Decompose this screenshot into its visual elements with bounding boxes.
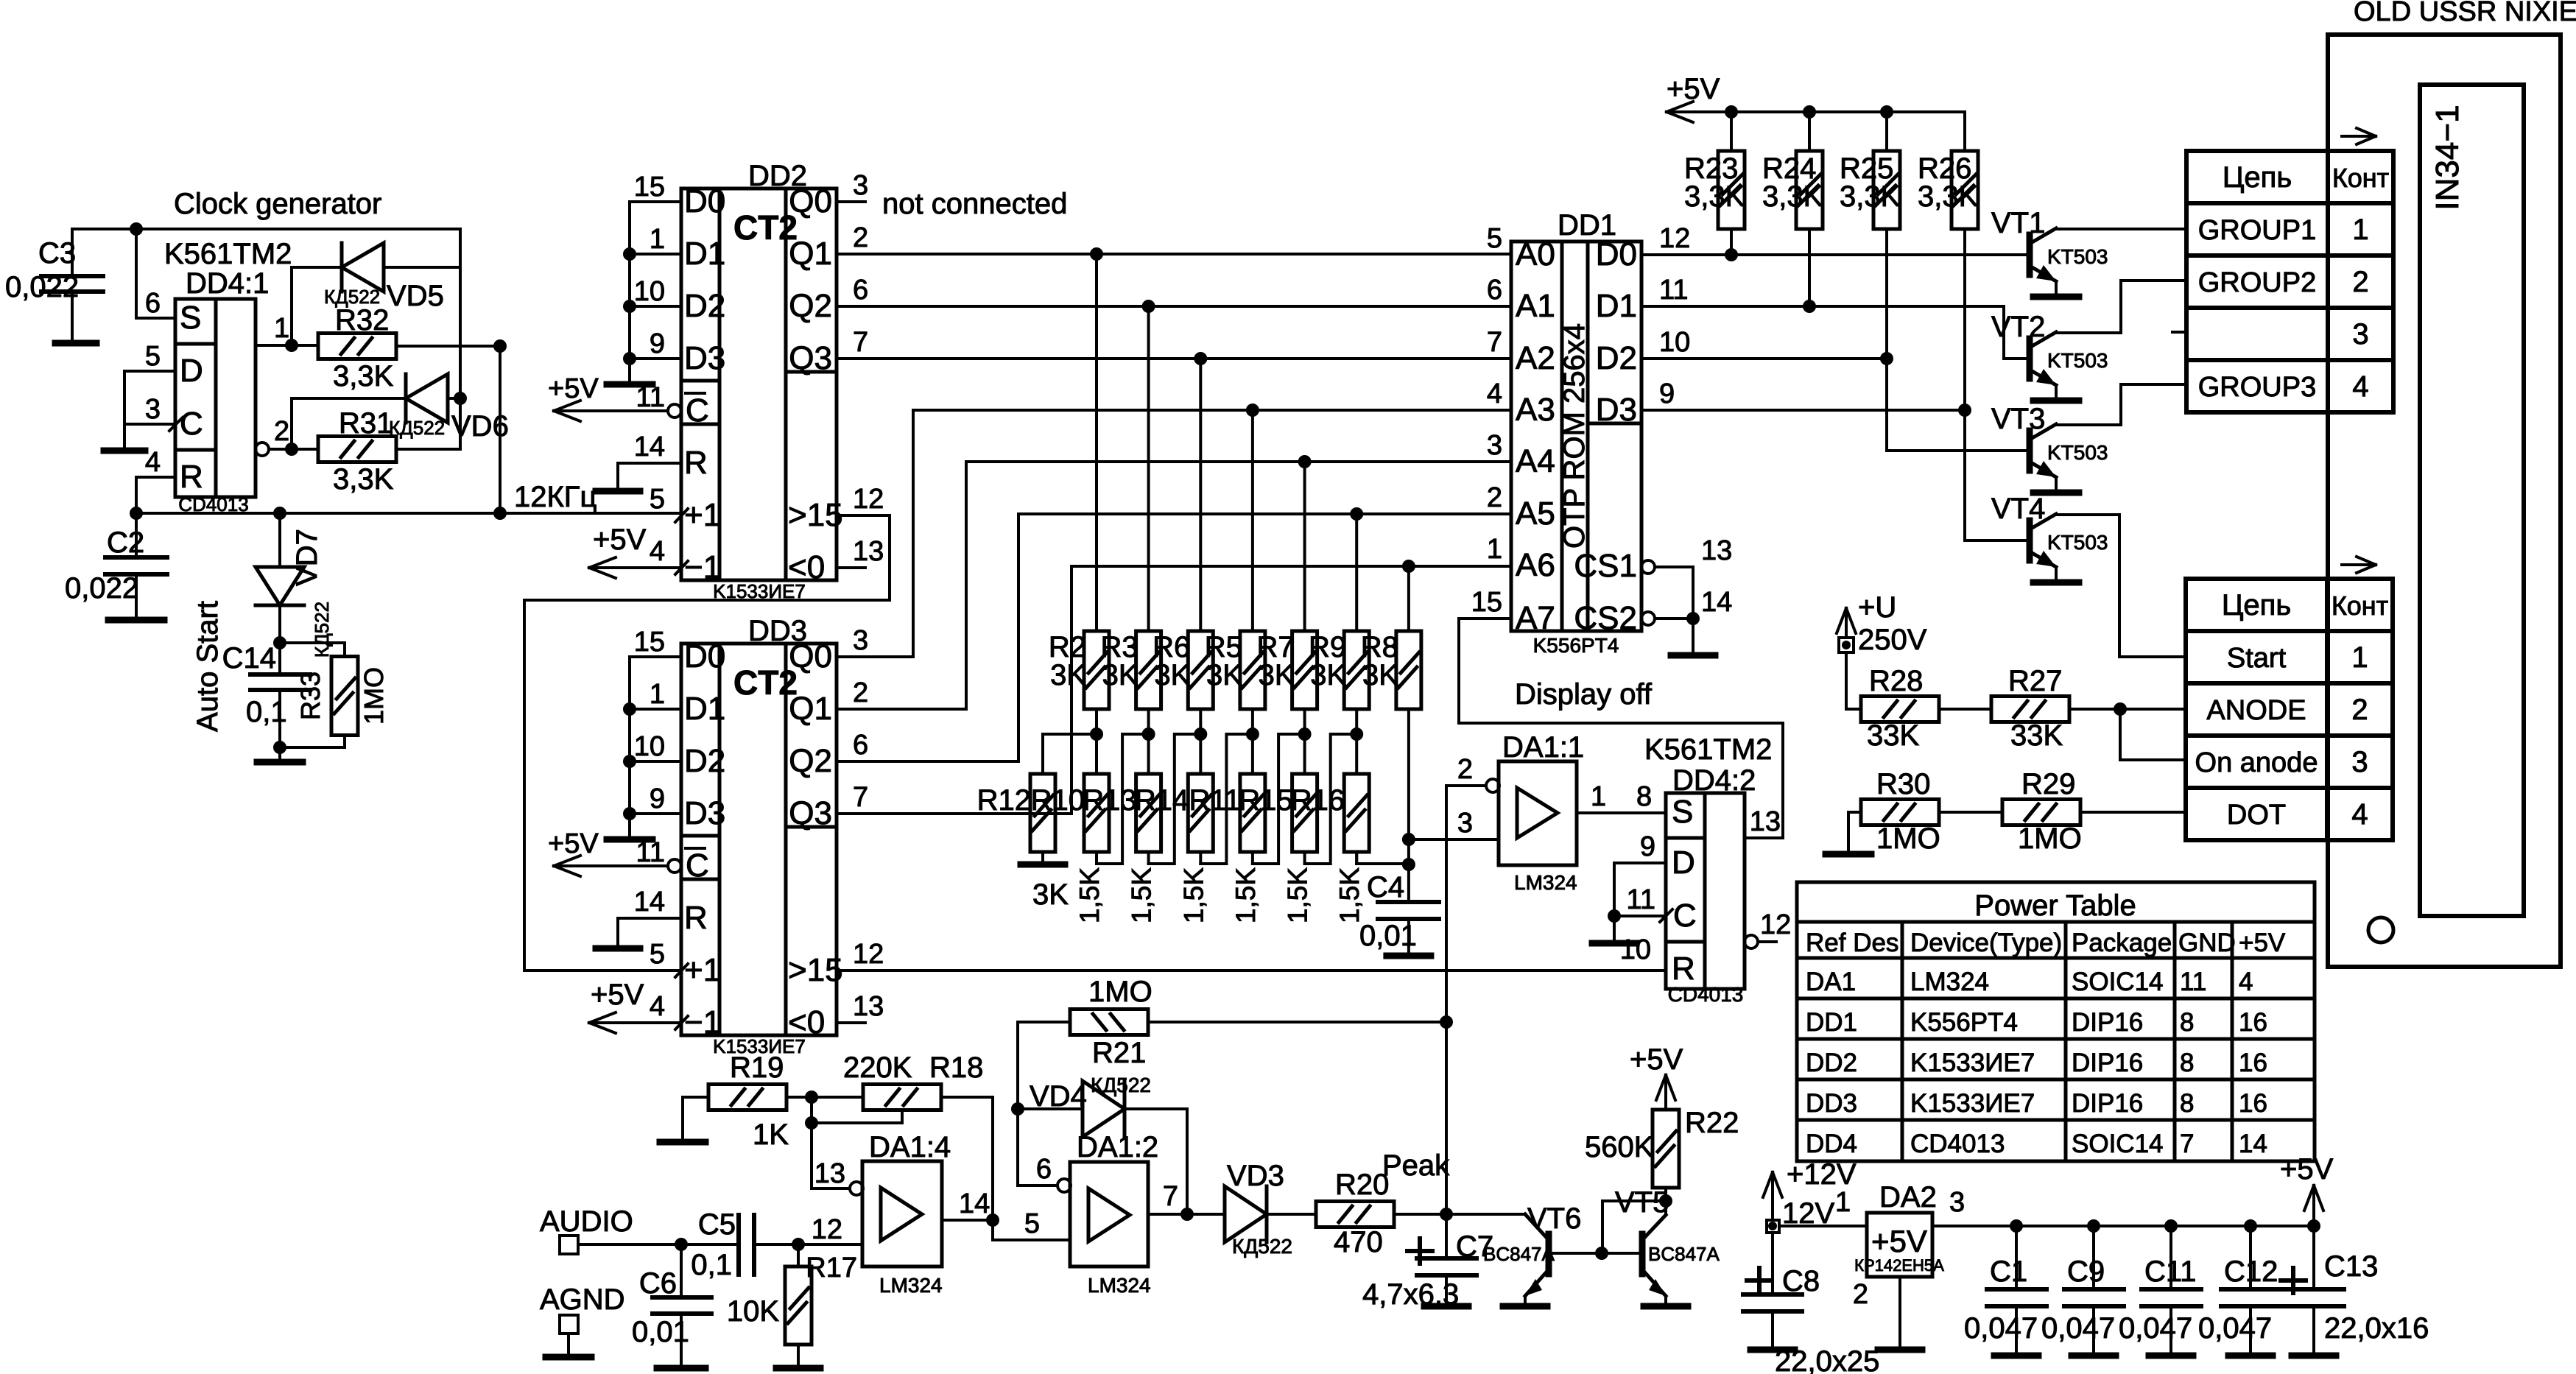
resistor R2 3K	[1084, 254, 1109, 864]
svg-text:R11: R11	[1189, 784, 1240, 817]
svg-text:0,022: 0,022	[5, 271, 79, 303]
svg-text:2: 2	[2351, 694, 2368, 726]
wire R16 jog	[1356, 852, 1409, 864]
svg-text:SOIC14: SOIC14	[2072, 1130, 2164, 1158]
wire ladder link 3	[1200, 734, 1253, 864]
pin 12 DD4:2	[1745, 909, 1791, 948]
svg-text:Start: Start	[2227, 643, 2287, 674]
arrow conn2	[2342, 557, 2376, 573]
resistor R31	[318, 407, 460, 496]
svg-text:Power Table: Power Table	[1974, 889, 2136, 922]
svg-text:R15: R15	[1239, 784, 1292, 817]
svg-text:S: S	[1672, 794, 1693, 830]
pins D-tie DD3	[607, 627, 681, 839]
svg-text:VD4: VD4	[1030, 1080, 1087, 1113]
svg-text:3K: 3K	[1032, 878, 1069, 911]
wire D3-VT4	[1641, 378, 2028, 540]
svg-text:10: 10	[634, 276, 665, 307]
supply +5V R22	[1630, 1043, 1683, 1100]
svg-text:3K: 3K	[1206, 659, 1242, 691]
svg-text:K1533ИЕ7: K1533ИЕ7	[1910, 1089, 2035, 1118]
svg-text:1MO: 1MO	[1876, 822, 1940, 855]
pin 14 R DD2	[596, 431, 681, 491]
svg-text:2: 2	[1457, 754, 1473, 785]
label KD522 VD5	[324, 286, 380, 308]
svg-text:On anode: On anode	[2195, 747, 2318, 778]
svg-text:4: 4	[1487, 378, 1502, 409]
arrow conn1	[2342, 128, 2376, 144]
svg-text:3: 3	[1487, 430, 1502, 461]
pin 5 +1 DD3	[524, 939, 681, 970]
label BC847A VT5	[1648, 1243, 1720, 1265]
pin 6 S DD4:1	[136, 229, 175, 319]
svg-text:DD3: DD3	[1806, 1089, 1857, 1118]
svg-text:0,047: 0,047	[2198, 1312, 2272, 1345]
label DA1:2	[1077, 1131, 1158, 1163]
label R5	[1205, 631, 1242, 691]
svg-text:14: 14	[634, 431, 665, 462]
resistor R25 3,3K	[1873, 112, 1900, 359]
pin 4 R DD4:1	[136, 447, 175, 513]
svg-text:1: 1	[2352, 214, 2368, 246]
svg-text:11: 11	[2180, 968, 2206, 996]
svg-text:9: 9	[650, 783, 665, 814]
svg-text:DD4:2: DD4:2	[1672, 764, 1756, 797]
svg-text:3: 3	[1457, 808, 1473, 839]
label R25	[1840, 152, 1901, 213]
svg-text:C: C	[686, 392, 709, 429]
svg-text:3,3K: 3,3K	[1684, 180, 1745, 213]
svg-text:VT1: VT1	[1991, 207, 2045, 239]
svg-text:DIP16: DIP16	[2072, 1049, 2143, 1077]
wire VT6 base	[1551, 1247, 1640, 1260]
resistor R22 560K	[1585, 1075, 1739, 1201]
ground autostart	[257, 747, 303, 762]
svg-text:A0: A0	[1516, 236, 1555, 272]
display circle	[2368, 917, 2393, 943]
pin 5 +1 DD2	[650, 484, 665, 515]
svg-text:A7: A7	[1516, 600, 1555, 636]
svg-text:Q3: Q3	[789, 340, 832, 376]
svg-text:14: 14	[959, 1188, 990, 1219]
svg-text:12: 12	[1659, 223, 1690, 254]
svg-text:12: 12	[1760, 909, 1791, 940]
label R2	[1049, 631, 1086, 691]
capacitor C3	[5, 229, 103, 343]
svg-text:3K: 3K	[1362, 659, 1398, 691]
pin 4 -1 DD2	[589, 536, 681, 578]
svg-text:+1: +1	[684, 497, 721, 533]
table Power Table	[1797, 882, 2315, 1161]
label LM324 DA1	[1514, 871, 1577, 894]
svg-text:1: 1	[1591, 781, 1606, 812]
svg-text:C3: C3	[38, 237, 76, 269]
svg-text:+12V: +12V	[1787, 1158, 1857, 1191]
display box IN34-1	[2328, 35, 2561, 967]
svg-text:1,5K: 1,5K	[1074, 867, 1105, 923]
svg-text:D1: D1	[684, 236, 725, 272]
wire ladder link 4	[1253, 734, 1305, 864]
svg-text:DA1:2: DA1:2	[1077, 1131, 1158, 1163]
svg-text:8: 8	[2180, 1089, 2194, 1118]
svg-text:BC847A: BC847A	[1648, 1243, 1720, 1265]
svg-text:R19: R19	[730, 1051, 784, 1084]
svg-text:D0: D0	[684, 638, 725, 674]
svg-text:DA1:4: DA1:4	[869, 1131, 951, 1163]
svg-text:4: 4	[2351, 798, 2368, 831]
capacitor C8	[1743, 1233, 1820, 1350]
svg-text:C14: C14	[222, 642, 276, 674]
label +5V rail	[1667, 73, 1720, 105]
pin 2 DA1:1	[1440, 754, 1499, 1214]
svg-text:1MO: 1MO	[359, 667, 389, 725]
label DA1:4	[869, 1131, 951, 1163]
svg-text:2: 2	[853, 677, 868, 708]
svg-text:8: 8	[2180, 1008, 2194, 1037]
svg-text:3: 3	[145, 394, 161, 425]
svg-text:2: 2	[274, 416, 289, 447]
svg-text:VT4: VT4	[1991, 493, 2045, 525]
flip-flop DD4:1	[169, 299, 256, 497]
svg-text:OLD USSR NIXIE: OLD USSR NIXIE	[2354, 0, 2576, 27]
svg-text:D1: D1	[684, 691, 725, 727]
wire D2-VT3	[1641, 327, 2028, 451]
svg-text:14: 14	[634, 887, 665, 917]
svg-text:CD4013: CD4013	[1910, 1130, 2005, 1158]
svg-text:15: 15	[1471, 587, 1502, 618]
svg-text:9: 9	[650, 328, 665, 359]
svg-text:D3: D3	[684, 795, 725, 831]
wire DD3-15 reset	[837, 939, 1666, 970]
svg-text:D3: D3	[684, 340, 725, 376]
svg-text:1: 1	[274, 313, 289, 344]
svg-text:LM324: LM324	[879, 1274, 943, 1297]
svg-text:CD4013: CD4013	[1668, 983, 1744, 1006]
svg-text:R17: R17	[806, 1253, 857, 1283]
svg-text:+5V: +5V	[591, 979, 644, 1011]
svg-text:+5V: +5V	[1630, 1043, 1683, 1076]
op-amp DA1:4	[850, 1161, 942, 1266]
svg-text:6: 6	[1487, 275, 1502, 306]
label VT4	[1991, 493, 2045, 525]
svg-text:C4: C4	[1367, 871, 1404, 903]
svg-text:6: 6	[1036, 1154, 1052, 1185]
label not connected	[882, 188, 1067, 220]
pin 14 DA1:4	[942, 1188, 999, 1227]
label R8	[1361, 631, 1398, 691]
svg-text:+5V: +5V	[1871, 1224, 1927, 1258]
resistor R6 3K	[1188, 359, 1213, 864]
svg-text:0,047: 0,047	[2041, 1312, 2115, 1345]
svg-text:3,3K: 3,3K	[333, 360, 394, 392]
svg-text:A3: A3	[1516, 392, 1555, 428]
svg-text:13: 13	[1750, 806, 1781, 837]
wire Q2-A5	[837, 507, 1511, 761]
svg-text:3: 3	[853, 170, 868, 201]
svg-text:Q2: Q2	[789, 743, 832, 779]
wire clock-top	[72, 222, 460, 236]
svg-text:C1: C1	[1990, 1255, 2027, 1288]
svg-text:7: 7	[2180, 1130, 2194, 1158]
pin 3 DA1:1	[1409, 808, 1499, 839]
terminal AUDIO	[540, 1205, 739, 1254]
label VT2	[1991, 311, 2045, 343]
svg-text:12КГц: 12КГц	[514, 481, 597, 513]
wire Q3-A2	[837, 327, 1511, 365]
svg-text:DOT: DOT	[2227, 800, 2286, 831]
svg-text:S: S	[180, 300, 201, 336]
resistor R19 1K	[660, 1051, 789, 1151]
svg-text:R: R	[1672, 951, 1695, 987]
resistor R5 3K	[1240, 410, 1265, 864]
counter DD2	[675, 160, 843, 602]
svg-text:ANODE: ANODE	[2206, 695, 2306, 726]
svg-text:+1: +1	[684, 952, 721, 988]
wire R29-DOT	[2080, 811, 2186, 814]
label 22,0x25	[1775, 1345, 1879, 1374]
resistor R29 1MO	[2002, 768, 2082, 855]
svg-text:not connected: not connected	[882, 188, 1067, 220]
svg-text:K561TM2: K561TM2	[1644, 733, 1772, 766]
svg-text:CT2: CT2	[733, 663, 798, 702]
capacitor C14	[222, 642, 310, 747]
svg-text:6: 6	[853, 730, 868, 761]
resistor R9 3K	[1344, 514, 1369, 864]
diode VD4	[1018, 1081, 1187, 1214]
resistor R18 220K	[843, 1051, 983, 1110]
svg-text:33K: 33K	[2010, 719, 2063, 752]
pin CS2 DD1	[1641, 587, 1732, 655]
svg-text:7: 7	[1487, 327, 1502, 358]
svg-text:VD5: VD5	[387, 280, 444, 312]
svg-text:13: 13	[1701, 535, 1732, 566]
label R26	[1918, 152, 1979, 213]
svg-text:Цепь: Цепь	[2222, 589, 2291, 621]
svg-text:КД522: КД522	[1091, 1074, 1151, 1096]
svg-text:Display off: Display off	[1515, 678, 1653, 711]
svg-text:КР142ЕН5А: КР142ЕН5А	[1854, 1256, 1944, 1275]
svg-text:1MO: 1MO	[1088, 976, 1152, 1008]
label R3	[1100, 631, 1138, 691]
svg-text:CS1: CS1	[1574, 548, 1637, 584]
svg-text:4: 4	[650, 991, 665, 1022]
svg-text:2: 2	[1487, 482, 1502, 513]
label 12KHz	[514, 481, 597, 513]
connector X2	[2186, 579, 2393, 840]
label VD4	[1030, 1080, 1087, 1113]
flip-flop DD4:2	[1660, 793, 1745, 989]
svg-text:C8: C8	[1782, 1265, 1820, 1297]
svg-text:C9: C9	[2067, 1255, 2105, 1288]
pin 2 DD4:1	[256, 416, 318, 456]
resistor R3 3K	[1136, 306, 1161, 864]
svg-text:VT6: VT6	[1527, 1202, 1581, 1235]
wire Q0-A3	[837, 404, 1511, 657]
svg-text:2: 2	[853, 222, 868, 253]
capacitor C1 0,047	[1964, 1226, 2047, 1356]
svg-text:CS2: CS2	[1574, 600, 1637, 636]
svg-text:Q3: Q3	[789, 795, 832, 831]
transistor VT1	[2030, 228, 2079, 297]
label CD4013	[178, 493, 248, 515]
svg-text:VD6: VD6	[451, 410, 509, 443]
label R15 1,5K	[1239, 784, 1312, 923]
pin 11 DD4:2	[1592, 884, 1666, 943]
svg-text:1: 1	[650, 224, 665, 255]
label R24	[1762, 152, 1823, 213]
svg-text:Device(Type): Device(Type)	[1910, 929, 2062, 957]
svg-text:R12: R12	[977, 784, 1031, 817]
svg-text:7: 7	[1163, 1181, 1178, 1212]
svg-text:DD4:1: DD4:1	[186, 267, 269, 300]
svg-text:4: 4	[2352, 370, 2368, 403]
transistor VT2	[2030, 332, 2079, 401]
wire Q3-A6	[837, 560, 1511, 814]
svg-text:R: R	[684, 900, 708, 936]
label IN34-1	[2429, 105, 2466, 210]
pin 1 DD4:1	[256, 313, 318, 352]
svg-text:5: 5	[650, 939, 665, 970]
svg-text:3,3K: 3,3K	[1762, 180, 1823, 213]
ground DA2	[1853, 1277, 1922, 1350]
svg-text:A6: A6	[1516, 547, 1555, 583]
label R9	[1309, 631, 1346, 691]
pin 3 Q0 DD2	[837, 170, 868, 202]
pin 14 R DD3	[596, 887, 681, 948]
capacitor C7	[1407, 1214, 1493, 1306]
svg-text:VD3: VD3	[1227, 1160, 1284, 1192]
svg-text:3,3K: 3,3K	[333, 463, 394, 496]
label VT6	[1527, 1202, 1581, 1235]
label KD522 VD4	[1091, 1074, 1151, 1096]
svg-text:4: 4	[145, 447, 161, 478]
svg-text:C2: C2	[107, 526, 144, 559]
svg-text:13: 13	[853, 991, 884, 1022]
wire R30-R29	[1939, 811, 2002, 814]
resistor R23 3,3K	[1718, 112, 1745, 255]
svg-text:0,01: 0,01	[632, 1316, 689, 1348]
svg-text:9: 9	[1640, 831, 1655, 862]
wire VT5 collector	[1602, 1194, 1672, 1253]
resistor R21 1MO	[1018, 976, 1446, 1109]
svg-text:LM324: LM324	[1088, 1274, 1151, 1297]
svg-text:D1: D1	[1596, 288, 1637, 324]
svg-text:R27: R27	[2008, 665, 2062, 697]
svg-text:D2: D2	[1596, 340, 1637, 376]
svg-text:C12: C12	[2224, 1255, 2278, 1288]
wire R19-R18	[786, 1091, 863, 1104]
svg-text:R22: R22	[1685, 1107, 1739, 1139]
label K556PT4	[1533, 634, 1619, 657]
supply +12V	[1763, 1158, 1857, 1220]
label +5V DD3-D	[548, 828, 599, 859]
pin 6 DA1:2	[1011, 1102, 1058, 1185]
label R7	[1256, 631, 1294, 691]
svg-text:8: 8	[2180, 1049, 2194, 1077]
wire VT2 collector	[2056, 281, 2185, 333]
wire DA2 out	[1932, 1187, 2320, 1233]
wire VT1 collector	[2056, 228, 2186, 230]
label Auto Start	[191, 601, 224, 732]
svg-text:D3: D3	[1596, 392, 1637, 428]
svg-text:D0: D0	[1596, 236, 1637, 272]
svg-text:KT503: KT503	[2047, 349, 2108, 372]
wire 12KHz	[130, 507, 681, 520]
label DD4:2	[1672, 764, 1756, 797]
svg-text:R31: R31	[339, 407, 393, 440]
label KD522 VD6	[389, 417, 445, 439]
svg-text:DA2: DA2	[1879, 1181, 1937, 1213]
svg-text:1: 1	[1835, 1187, 1851, 1218]
svg-text:+5V: +5V	[2280, 1153, 2334, 1185]
svg-text:1,5K: 1,5K	[1231, 867, 1261, 923]
svg-text:CT2: CT2	[733, 208, 798, 247]
svg-text:R: R	[684, 445, 708, 481]
svg-text:R20: R20	[1335, 1169, 1389, 1201]
svg-text:+5V: +5V	[548, 828, 599, 859]
label VT3	[1991, 403, 2045, 435]
svg-text:GROUP3: GROUP3	[2198, 372, 2316, 403]
svg-text:C5: C5	[698, 1208, 736, 1241]
resistor R20 470	[1316, 1169, 1525, 1258]
svg-text:470: 470	[1334, 1226, 1383, 1258]
svg-text:11: 11	[636, 837, 665, 868]
svg-text:1MO: 1MO	[2018, 822, 2082, 855]
svg-text:0,01: 0,01	[1359, 920, 1417, 952]
label K561TM2 DD4	[1644, 733, 1772, 766]
pin 13 DD3	[837, 991, 884, 1023]
capacitor C5	[691, 1208, 862, 1281]
wire Q2-A1	[837, 275, 1511, 313]
svg-text:0,047: 0,047	[2119, 1312, 2192, 1345]
svg-text:LM324: LM324	[1514, 871, 1577, 894]
diode VD7	[256, 513, 304, 649]
svg-text:A4: A4	[1516, 443, 1555, 479]
resistor R32	[318, 304, 507, 513]
capacitor C9 0,047	[2041, 1226, 2124, 1356]
svg-text:K556PT4: K556PT4	[1910, 1008, 2018, 1037]
label Peak	[1382, 1149, 1450, 1182]
pin 9 DD4:2	[1614, 831, 1666, 916]
label LM324 DA1:4	[879, 1274, 943, 1297]
pin 4 -1 DD3	[589, 991, 681, 1033]
svg-text:R28: R28	[1869, 665, 1923, 697]
svg-text:22,0x16: 22,0x16	[2324, 1312, 2429, 1345]
svg-text:Конт: Конт	[2332, 163, 2389, 193]
svg-text:1: 1	[1487, 534, 1502, 565]
connector X1	[2186, 151, 2393, 412]
svg-text:A1: A1	[1516, 288, 1555, 324]
svg-text:Q2: Q2	[789, 288, 832, 324]
transistor VT6	[1503, 1214, 1549, 1306]
capacitor C11 0,047	[2119, 1226, 2201, 1356]
svg-text:1K: 1K	[753, 1118, 789, 1151]
svg-text:DIP16: DIP16	[2072, 1008, 2143, 1037]
label +5V DD2-m1	[593, 524, 647, 556]
svg-text:12: 12	[853, 939, 884, 970]
svg-text:11: 11	[636, 382, 665, 413]
wire D1-VT2	[1641, 275, 2028, 359]
regulator DA2	[1854, 1213, 1944, 1277]
wire ladder link 5	[1305, 734, 1357, 864]
label VD7	[291, 529, 323, 586]
label KT503 VT1	[2047, 245, 2108, 268]
svg-text:3: 3	[853, 625, 868, 656]
svg-text:GROUP1: GROUP1	[2198, 215, 2316, 246]
svg-text:D2: D2	[684, 743, 725, 779]
ROM DD1	[1511, 242, 1641, 631]
svg-text:AGND: AGND	[540, 1283, 625, 1316]
